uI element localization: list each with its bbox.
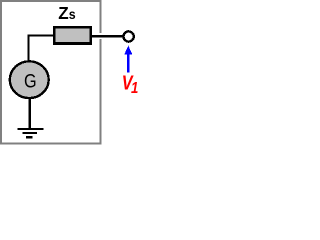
generator G — [10, 61, 49, 98]
wire: generator bottom to ground — [29, 98, 31, 129]
wire: corner to impedance (left horizontal + vertical down to generator) — [28, 35, 56, 62]
enclosure box — [1, 1, 100, 143]
ground — [18, 129, 44, 137]
svg-text:s: s — [69, 6, 76, 22]
terminal node — [124, 31, 134, 41]
arrow V1 — [124, 46, 132, 73]
wire: impedance to terminal — [90, 35, 124, 37]
impedance Zs — [54, 27, 91, 43]
label V1 — [122, 72, 139, 97]
svg-text:Z: Z — [58, 2, 69, 23]
svg-text:G: G — [24, 70, 37, 92]
label Zs — [58, 2, 75, 23]
svg-text:1: 1 — [131, 80, 138, 97]
gap in enclosure at wire crossing — [99, 33, 102, 39]
